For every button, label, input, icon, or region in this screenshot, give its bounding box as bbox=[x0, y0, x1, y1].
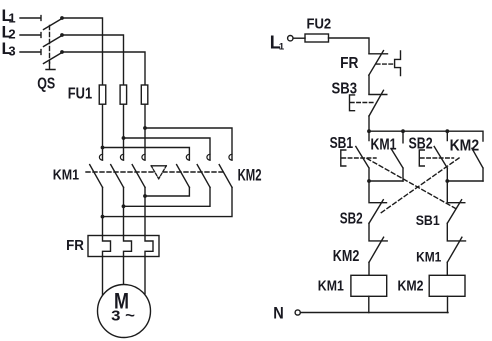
svg-text:3: 3 bbox=[8, 43, 15, 58]
svg-text:FU2: FU2 bbox=[307, 16, 332, 33]
svg-text:1: 1 bbox=[279, 42, 285, 53]
svg-text:SB1: SB1 bbox=[330, 135, 354, 152]
svg-text:FU1: FU1 bbox=[68, 86, 92, 103]
svg-text:KM2: KM2 bbox=[450, 138, 480, 155]
svg-text:FR: FR bbox=[340, 55, 359, 72]
svg-text:N: N bbox=[273, 304, 284, 323]
svg-text:KM2: KM2 bbox=[398, 278, 424, 295]
svg-text:SB1: SB1 bbox=[416, 212, 440, 228]
svg-text:SB3: SB3 bbox=[332, 81, 358, 98]
svg-text:SB2: SB2 bbox=[340, 210, 363, 227]
svg-text:SB2: SB2 bbox=[409, 136, 433, 153]
svg-text:QS: QS bbox=[37, 76, 55, 93]
svg-text:KM1: KM1 bbox=[371, 136, 397, 153]
svg-text:KM1: KM1 bbox=[318, 278, 344, 295]
svg-text:KM2: KM2 bbox=[238, 166, 262, 184]
svg-text:KM1: KM1 bbox=[53, 166, 79, 183]
svg-text:3 ~: 3 ~ bbox=[111, 308, 135, 325]
svg-text:FR: FR bbox=[66, 237, 84, 254]
svg-text:KM2: KM2 bbox=[333, 248, 360, 265]
svg-text:KM1: KM1 bbox=[416, 249, 441, 265]
